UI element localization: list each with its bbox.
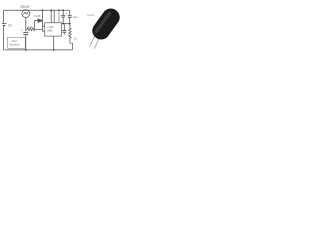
- junction dot: [62, 23, 64, 25]
- resistor R1: [26, 28, 43, 31]
- capacitor C2: [61, 10, 65, 23]
- svg-text:3V: 3V: [8, 23, 13, 27]
- svg-text:555: 555: [47, 29, 52, 33]
- label box (annotation): [8, 37, 26, 48]
- svg-text:buzzer: buzzer: [87, 13, 94, 17]
- pin: IC top pin 1: [50, 10, 52, 22]
- component photo body: [89, 5, 123, 43]
- diode D1: [35, 19, 42, 30]
- resistor R2: [69, 24, 73, 50]
- junction dot: [58, 9, 60, 11]
- svg-text:Self: Self: [12, 39, 17, 43]
- svg-text:78M09: 78M09: [20, 5, 30, 9]
- capacitor C1 (electrolytic, on buzzer branch): [21, 29, 28, 35]
- wire: left rail upper: [3, 10, 5, 23]
- junction dot: [25, 49, 27, 51]
- junction dot: [42, 9, 44, 11]
- svg-text:4148: 4148: [34, 14, 41, 18]
- capacitor C4: [62, 24, 66, 35]
- IC U1 555: [45, 23, 62, 36]
- wire: stub to IC pin: [42, 25, 44, 27]
- wire: node B horizontal: [62, 23, 70, 25]
- wire: C1 to bottom rail: [25, 35, 27, 50]
- svg-text:Vibration: Vibration: [9, 43, 20, 47]
- wire: rail corner down to C3: [69, 10, 71, 15]
- svg-text:1k: 1k: [74, 36, 78, 40]
- wire: stub to IC pin lower: [42, 30, 44, 32]
- svg-text:+: +: [21, 29, 23, 33]
- pin: IC top pin 3: [58, 10, 60, 22]
- buzzer BZ1 (circle component): [22, 10, 30, 18]
- capacitor C3 (electrolytic): [66, 12, 72, 24]
- battery B1: [2, 23, 7, 25]
- wire: buzzer to resistor node: [25, 18, 27, 32]
- svg-text:10u: 10u: [73, 15, 78, 19]
- junction dot: [53, 49, 55, 51]
- junction dot: [69, 23, 71, 25]
- junction dot: [50, 9, 52, 11]
- component photo leads: [90, 36, 95, 47]
- node A vertical (pin2/6 line): [41, 10, 43, 31]
- wire: top rail: [4, 9, 70, 11]
- pin: IC top pin 2: [53, 10, 55, 22]
- wire: bottom rail: [4, 49, 73, 51]
- svg-text:+: +: [66, 12, 68, 16]
- wire: left rail lower: [3, 26, 5, 50]
- junction dot top rail right: [62, 9, 64, 11]
- pin: IC bottom pin: [53, 36, 55, 50]
